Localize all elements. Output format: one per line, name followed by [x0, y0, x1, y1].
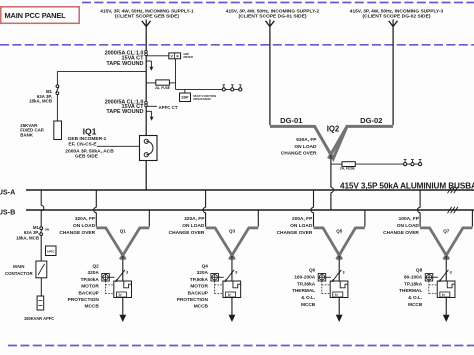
svg-text:IQ1: IQ1 — [83, 127, 97, 137]
svg-text:(CLIENT SCOPE DG-02 SIDE): (CLIENT SCOPE DG-02 SIDE) — [363, 14, 431, 20]
svg-text:PROCESSOR: PROCESSOR — [193, 97, 210, 101]
svg-text:IQ2: IQ2 — [327, 124, 340, 133]
svg-text:SSP: SSP — [181, 96, 189, 100]
svg-text:I>: I> — [119, 293, 122, 297]
svg-text:Q6: Q6 — [309, 267, 316, 273]
svg-text:BACKUP: BACKUP — [78, 290, 98, 296]
svg-text:63A 3P,: 63A 3P, — [24, 230, 39, 235]
svg-text:80-100A: 80-100A — [404, 274, 423, 280]
svg-text:415V, 3P, 4W, 50Hz, INCOMING S: 415V, 3P, 4W, 50Hz, INCOMING SUPPLY-3 — [350, 8, 444, 14]
svg-text:Q8: Q8 — [416, 267, 423, 273]
svg-text:APFC CT: APFC CT — [159, 105, 178, 110]
svg-text:PROTECTION: PROTECTION — [68, 297, 100, 303]
svg-text:200A, FP: 200A, FP — [292, 216, 313, 222]
svg-text:CHANGE OVER: CHANGE OVER — [59, 230, 95, 236]
svg-text:TP,50kA: TP,50kA — [81, 277, 100, 283]
svg-text:THERMAL: THERMAL — [399, 288, 422, 294]
svg-text:CHANGE OVER: CHANGE OVER — [169, 230, 205, 236]
svg-text:I>: I> — [335, 293, 338, 297]
svg-text:TP,18kA: TP,18kA — [404, 281, 423, 287]
svg-text:415V 3,5P 50kA ALUMINIUM BUSBA: 415V 3,5P 50kA ALUMINIUM BUSBAR — [340, 182, 474, 191]
svg-text:CHANGE OVER: CHANGE OVER — [383, 230, 419, 236]
svg-text:(CLIENT SCOPE GEB SIDE): (CLIENT SCOPE GEB SIDE) — [115, 14, 179, 20]
svg-text:CHANGE OVER: CHANGE OVER — [277, 230, 313, 236]
svg-text:100A, FP: 100A, FP — [399, 216, 420, 222]
svg-text:MAIN: MAIN — [13, 264, 24, 269]
svg-text:160-200A: 160-200A — [294, 274, 315, 280]
svg-text:ON LOAD: ON LOAD — [290, 223, 313, 229]
svg-text:Q1: Q1 — [120, 229, 127, 234]
svg-text:BACKUP: BACKUP — [188, 290, 208, 296]
svg-text:415V, 3P, 4W, 50Hz, INCOMING S: 415V, 3P, 4W, 50Hz, INCOMING SUPPLY-2 — [226, 8, 320, 14]
svg-text:2A, FUSE: 2A, FUSE — [340, 166, 356, 170]
svg-text:18kA, MCB: 18kA, MCB — [29, 98, 52, 103]
svg-text:TP,36kA: TP,36kA — [297, 281, 316, 287]
svg-text:Q4: Q4 — [202, 263, 209, 269]
svg-text:PROTECTION: PROTECTION — [177, 297, 209, 303]
svg-text:TAPE WOUND: TAPE WOUND — [106, 109, 143, 115]
svg-text:M1: M1 — [33, 225, 40, 230]
svg-text:ON LOAD: ON LOAD — [73, 223, 96, 229]
svg-text:320A: 320A — [87, 270, 99, 276]
svg-text:Q7: Q7 — [443, 229, 450, 234]
svg-text:415V, 3P, 4W, 50Hz, INCOMING S: 415V, 3P, 4W, 50Hz, INCOMING SUPPLY-1 — [100, 8, 194, 14]
svg-text:ON: ON — [45, 228, 50, 232]
svg-text:GEB INCOMER-1: GEB INCOMER-1 — [68, 136, 107, 142]
svg-text:CHANGE OVER: CHANGE OVER — [281, 151, 317, 157]
svg-text:150KVAR APFC: 150KVAR APFC — [24, 316, 54, 321]
svg-text:I>: I> — [442, 293, 445, 297]
svg-text:GEB SIDE: GEB SIDE — [75, 154, 99, 160]
svg-text:Q2: Q2 — [92, 263, 99, 269]
svg-text:I>: I> — [228, 293, 231, 297]
svg-text:MCCB: MCCB — [85, 304, 100, 310]
svg-text:EF, CN-CS-E: EF, CN-CS-E — [68, 141, 97, 147]
svg-text:MCCB: MCCB — [194, 304, 209, 310]
svg-text:BUS-B: BUS-B — [0, 207, 15, 216]
svg-text:(CLIENT SCOPE DG-01 SIDE): (CLIENT SCOPE DG-01 SIDE) — [239, 14, 307, 20]
svg-text:Q5: Q5 — [336, 229, 343, 234]
svg-text:METER: METER — [184, 55, 193, 59]
svg-text:DG-02: DG-02 — [360, 116, 382, 125]
svg-text:MOTOR: MOTOR — [81, 284, 99, 290]
svg-text:APFC: APFC — [47, 249, 56, 253]
svg-text:Q3: Q3 — [229, 229, 236, 234]
svg-text:320A: 320A — [197, 270, 209, 276]
svg-text:MCCB: MCCB — [301, 302, 316, 308]
svg-text:2A, FUSE: 2A, FUSE — [155, 86, 171, 90]
svg-text:THERMAL: THERMAL — [292, 288, 315, 294]
svg-text:BANK: BANK — [20, 133, 34, 138]
svg-text:DG-01: DG-01 — [280, 116, 303, 125]
svg-text:TAPE WOUND: TAPE WOUND — [106, 61, 143, 67]
svg-text:ON LOAD: ON LOAD — [182, 223, 205, 229]
svg-text:MAIN PCC PANEL: MAIN PCC PANEL — [5, 11, 67, 20]
svg-text:MOTOR: MOTOR — [190, 284, 208, 290]
svg-text:ON LOAD: ON LOAD — [397, 223, 420, 229]
svg-text:TP,50kA: TP,50kA — [190, 277, 209, 283]
svg-text:630A, FP: 630A, FP — [296, 137, 317, 143]
svg-text:& O.L.: & O.L. — [408, 295, 422, 301]
svg-text:& O.L.: & O.L. — [301, 295, 315, 301]
svg-text:ON LOAD: ON LOAD — [294, 144, 317, 150]
svg-text:320A, FP: 320A, FP — [75, 216, 96, 222]
svg-text:MCCB: MCCB — [408, 302, 423, 308]
svg-text:BUS-A: BUS-A — [0, 187, 15, 196]
svg-text:18kA, MCB: 18kA, MCB — [16, 236, 39, 241]
svg-text:2000A 3P, 50kA, ACB: 2000A 3P, 50kA, ACB — [65, 148, 114, 154]
svg-text:320A, FP: 320A, FP — [184, 216, 205, 222]
svg-text:CONTACTOR: CONTACTOR — [5, 271, 33, 276]
